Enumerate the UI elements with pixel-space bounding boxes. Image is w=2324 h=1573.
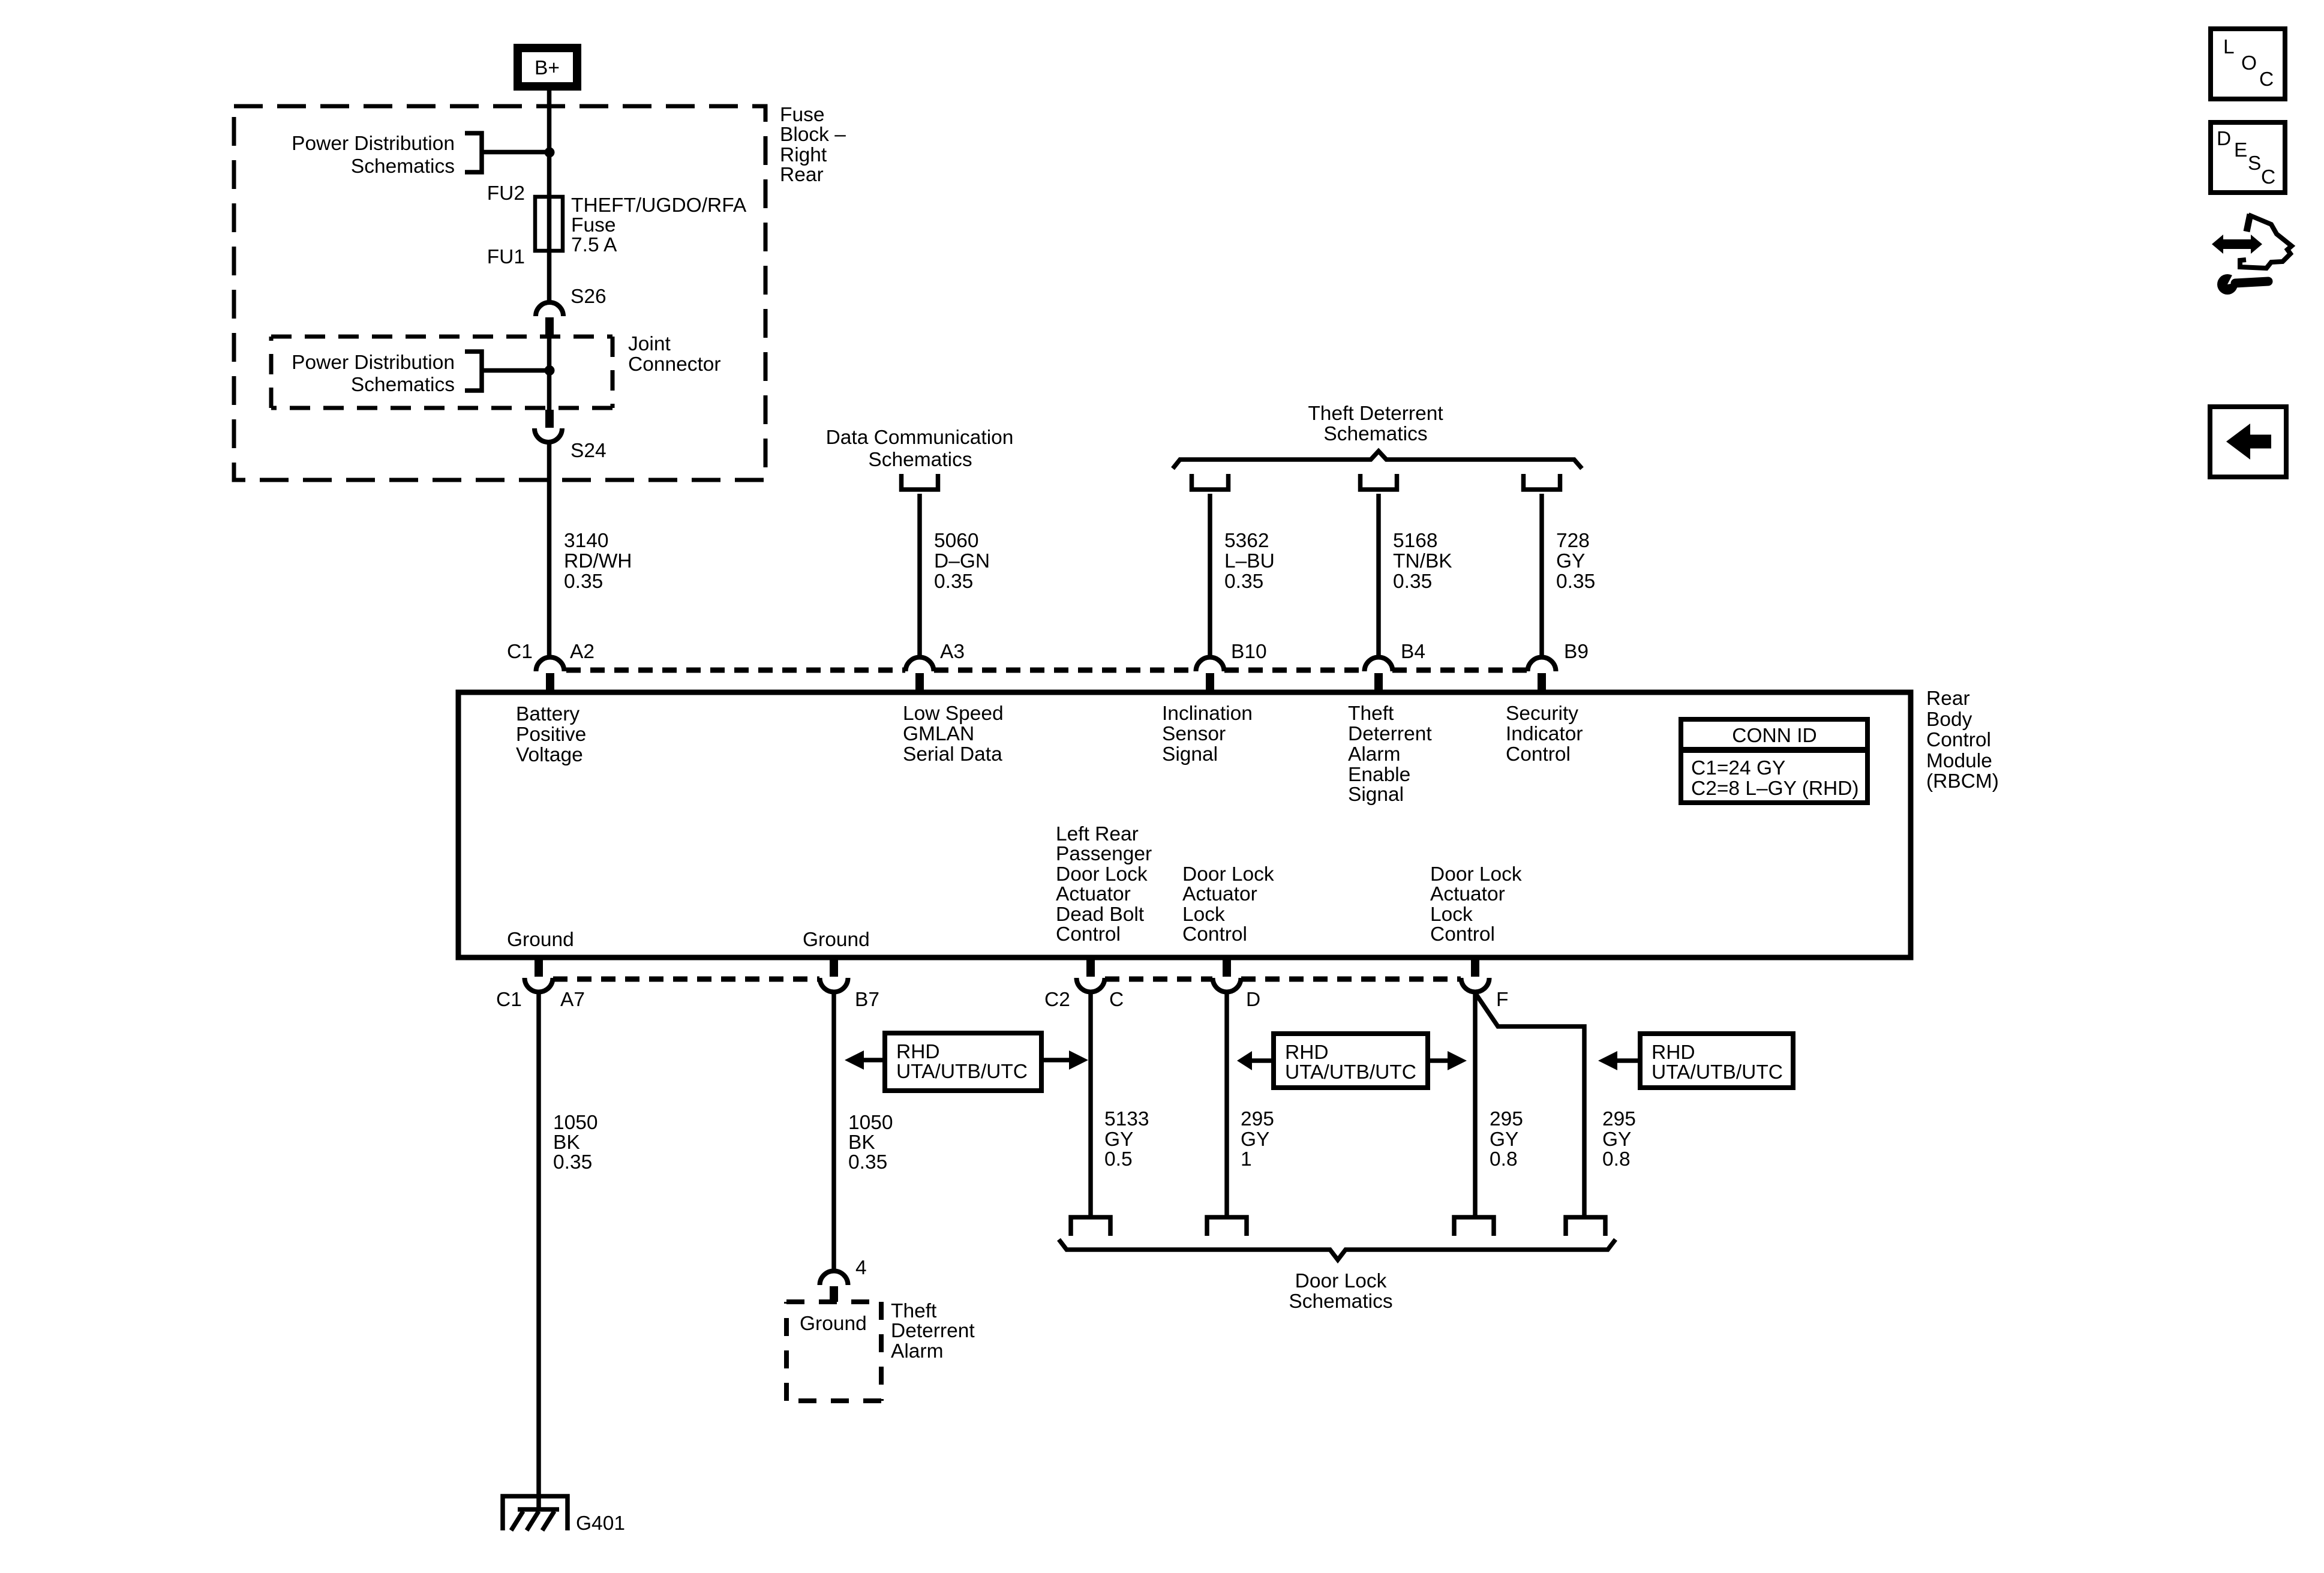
svg-text:A2: A2: [570, 641, 594, 663]
svg-text:L: L: [2223, 36, 2235, 58]
off-page connector B9: [1524, 474, 1560, 490]
svg-text:G401: G401: [576, 1512, 625, 1535]
node junction dot lower: [545, 365, 555, 376]
svg-text:1050: 1050: [553, 1112, 598, 1134]
svg-text:B7: B7: [855, 989, 879, 1011]
ground G401 symbol: [503, 1496, 568, 1530]
svg-text:S24: S24: [571, 440, 606, 462]
svg-text:Lock: Lock: [1182, 903, 1225, 926]
svg-text:Ground: Ground: [803, 929, 870, 951]
svg-text:Door Lock: Door Lock: [1056, 863, 1148, 885]
svg-text:BK: BK: [848, 1131, 875, 1154]
wire label 295 GY 0.8 (F2): [1602, 1108, 1636, 1170]
svg-text:3140: 3140: [564, 530, 609, 552]
svg-text:Sensor: Sensor: [1162, 723, 1226, 745]
svg-text:Body: Body: [1926, 709, 1972, 731]
svg-text:0.35: 0.35: [1556, 571, 1595, 593]
svg-text:Low Speed: Low Speed: [903, 703, 1004, 725]
svg-text:Schematics: Schematics: [868, 449, 972, 471]
svg-text:GMLAN: GMLAN: [903, 723, 974, 745]
module RBCM box: [458, 692, 1911, 957]
wire C to door lock: [1088, 992, 1093, 1217]
label Left Rear Passenger Door Lock Actuator Dead Bolt Control: [1056, 823, 1152, 945]
off-page connector F2 bottom: [1566, 1217, 1605, 1236]
label Joint Connector: [628, 333, 721, 376]
svg-text:Schematics: Schematics: [1323, 423, 1427, 445]
pin B4 arc: [1365, 658, 1393, 672]
svg-text:O: O: [2241, 52, 2257, 74]
svg-text:Deterrent: Deterrent: [891, 1320, 975, 1342]
svg-text:0.35: 0.35: [564, 571, 603, 593]
svg-text:295: 295: [1602, 1108, 1636, 1130]
svg-text:GY: GY: [1602, 1128, 1631, 1151]
svg-text:Voltage: Voltage: [516, 744, 583, 766]
svg-text:0.5: 0.5: [1104, 1148, 1133, 1170]
pin A2 arc: [536, 658, 565, 672]
svg-text:C1: C1: [507, 641, 533, 663]
wire B9 to theft deterrent: [1539, 494, 1544, 657]
CONN ID table: [1681, 719, 1867, 803]
svg-text:GY: GY: [1556, 550, 1585, 572]
joint connector dashed box: [271, 337, 612, 408]
svg-text:0.35: 0.35: [1224, 571, 1263, 593]
svg-text:A7: A7: [560, 989, 585, 1011]
svg-text:E: E: [2234, 139, 2247, 161]
svg-text:Power Distribution: Power Distribution: [292, 133, 455, 155]
label Theft Deterrent Schematics: [1308, 403, 1443, 445]
svg-text:D: D: [1246, 989, 1260, 1011]
label Security Indicator Control: [1506, 703, 1583, 766]
svg-text:Module: Module: [1926, 750, 1992, 772]
label Theft Deterrent Alarm: [891, 1300, 975, 1362]
svg-text:Theft: Theft: [891, 1300, 937, 1322]
pin D stub and arc: [1223, 959, 1231, 977]
svg-text:5362: 5362: [1224, 530, 1269, 552]
svg-text:Deterrent: Deterrent: [1348, 723, 1432, 745]
RHD UTA/UTB/UTC box 1: [845, 1033, 1088, 1091]
label Rear Body Control Module (RBCM): [1926, 688, 1999, 792]
svg-text:Block –: Block –: [780, 124, 846, 146]
off-page connector B10: [1192, 474, 1229, 490]
brace door lock schematics: [1059, 1239, 1616, 1260]
wire label 295 GY 1: [1241, 1108, 1274, 1170]
svg-text:728: 728: [1556, 530, 1590, 552]
svg-text:295: 295: [1490, 1108, 1523, 1130]
svg-text:UTA/UTB/UTC: UTA/UTB/UTC: [1285, 1061, 1416, 1083]
icon DESC box: [2211, 122, 2285, 193]
svg-text:CONN ID: CONN ID: [1732, 725, 1816, 747]
label Theft Deterrent Alarm Enable Signal: [1348, 703, 1432, 806]
svg-text:Data Communication: Data Communication: [826, 427, 1014, 449]
RHD UTA/UTB/UTC box 3: [1598, 1034, 1793, 1088]
label Power Distribution Schematics (upper): [292, 133, 455, 178]
fuse block dashed box: [234, 106, 765, 480]
fuse FU THEFT/UGDO/RFA: [535, 197, 563, 251]
label fuse value: [571, 194, 747, 256]
svg-text:Signal: Signal: [1162, 743, 1218, 766]
svg-text:L–BU: L–BU: [1224, 550, 1275, 572]
svg-text:F: F: [1496, 989, 1508, 1011]
battery positive B+ symbol: [514, 44, 581, 91]
svg-text:Security: Security: [1506, 703, 1578, 725]
svg-text:Theft Deterrent: Theft Deterrent: [1308, 403, 1443, 425]
wire B+ to splice S26: [547, 91, 552, 303]
svg-text:0.8: 0.8: [1602, 1148, 1631, 1170]
svg-text:Actuator: Actuator: [1430, 883, 1505, 905]
svg-text:Rear: Rear: [1926, 688, 1970, 710]
svg-text:D–GN: D–GN: [934, 550, 990, 572]
svg-text:S: S: [2248, 152, 2261, 175]
svg-text:4: 4: [855, 1257, 867, 1279]
wire bracket to node: [482, 368, 550, 373]
svg-text:Right: Right: [780, 144, 827, 166]
dashed connector line C1 top row: [566, 668, 905, 673]
pin B7 stub and arc: [830, 959, 838, 977]
svg-text:Control: Control: [1430, 923, 1495, 945]
svg-text:Connector: Connector: [628, 353, 721, 376]
svg-text:RHD: RHD: [896, 1041, 940, 1063]
wire label 295 GY 0.8 (F): [1490, 1108, 1523, 1170]
svg-text:Dead Bolt: Dead Bolt: [1056, 903, 1145, 926]
svg-text:B4: B4: [1401, 641, 1425, 663]
pin B9 arc: [1528, 658, 1556, 672]
svg-text:0.35: 0.35: [1393, 571, 1432, 593]
svg-text:0.35: 0.35: [848, 1151, 887, 1173]
wire S24 to module pin A2: [547, 442, 552, 658]
svg-text:Joint: Joint: [628, 333, 671, 355]
svg-text:Ground: Ground: [800, 1313, 867, 1335]
svg-text:UTA/UTB/UTC: UTA/UTB/UTC: [1652, 1061, 1783, 1083]
svg-text:Fuse: Fuse: [780, 104, 824, 126]
off-page connector B4: [1361, 474, 1397, 490]
svg-text:B10: B10: [1231, 641, 1267, 663]
splice arc above theft deterrent alarm: [820, 1271, 848, 1286]
wire label 1050 BK 0.35 (B7): [848, 1112, 893, 1173]
svg-text:Lock: Lock: [1430, 903, 1473, 926]
svg-text:B9: B9: [1564, 641, 1589, 663]
svg-text:Indicator: Indicator: [1506, 723, 1583, 745]
svg-text:1: 1: [1241, 1148, 1252, 1170]
svg-text:Power Distribution: Power Distribution: [292, 352, 455, 374]
svg-text:Door Lock: Door Lock: [1295, 1270, 1387, 1292]
svg-text:Left Rear: Left Rear: [1056, 823, 1139, 845]
off-page connector C bottom: [1071, 1217, 1110, 1236]
icon back arrow box: [2210, 407, 2286, 477]
svg-text:Control: Control: [1056, 923, 1121, 945]
svg-text:Ground: Ground: [507, 929, 574, 951]
svg-text:Schematics: Schematics: [351, 374, 455, 396]
pin A3 arc: [906, 658, 934, 672]
svg-text:Theft: Theft: [1348, 703, 1394, 725]
svg-text:D: D: [2217, 128, 2231, 150]
wire S26 to S24: [547, 335, 552, 414]
svg-text:Schematics: Schematics: [1289, 1290, 1392, 1313]
wire label 3140 RD/WH 0.35: [564, 530, 632, 593]
svg-text:Door Lock: Door Lock: [1430, 863, 1522, 885]
svg-text:Passenger: Passenger: [1056, 843, 1152, 865]
splice S26: [536, 302, 563, 316]
svg-text:B+: B+: [535, 57, 560, 79]
svg-text:5133: 5133: [1104, 1108, 1149, 1130]
svg-text:Fuse: Fuse: [571, 214, 615, 236]
svg-text:C1: C1: [496, 989, 522, 1011]
svg-text:BK: BK: [553, 1131, 580, 1154]
svg-text:7.5 A: 7.5 A: [571, 234, 617, 256]
label Power Distribution Schematics (lower): [292, 352, 455, 396]
wire B4 to theft deterrent: [1376, 494, 1381, 657]
wire D to door lock: [1224, 992, 1229, 1217]
wire label 1050 BK 0.35 (A7): [553, 1112, 598, 1173]
bracket lower power distribution: [465, 352, 482, 391]
svg-text:S26: S26: [571, 286, 606, 308]
pin A7 stub and arc: [535, 959, 543, 977]
wire label 5133 GY 0.5: [1104, 1108, 1149, 1170]
wire bracket to node: [482, 150, 550, 155]
node junction dot upper: [545, 148, 555, 158]
svg-text:5168: 5168: [1393, 530, 1438, 552]
svg-text:0.8: 0.8: [1490, 1148, 1518, 1170]
svg-text:Battery: Battery: [516, 703, 580, 725]
svg-text:Serial Data: Serial Data: [903, 743, 1002, 766]
wire B10 to theft deterrent: [1208, 494, 1212, 657]
theft deterrent alarm dashed box: [786, 1302, 881, 1401]
svg-text:Enable: Enable: [1348, 764, 1410, 786]
wire B7 to theft deterrent alarm ground: [831, 992, 836, 1271]
label Door Lock Actuator Lock Control (D): [1182, 863, 1274, 945]
wire A7 to G401: [536, 992, 541, 1509]
svg-text:TN/BK: TN/BK: [1393, 550, 1452, 572]
svg-text:RHD: RHD: [1285, 1041, 1329, 1064]
svg-text:FU1: FU1: [487, 246, 525, 268]
svg-text:C1=24 GY: C1=24 GY: [1691, 757, 1785, 779]
dashed connector line bottom C2: [1105, 977, 1212, 982]
label Inclination Sensor Signal: [1162, 703, 1253, 766]
svg-text:FU2: FU2: [487, 182, 525, 205]
svg-text:Schematics: Schematics: [351, 155, 455, 178]
svg-text:GY: GY: [1104, 1128, 1133, 1151]
svg-text:UTA/UTB/UTC: UTA/UTB/UTC: [896, 1061, 1028, 1083]
off-page connector D bottom: [1207, 1217, 1247, 1236]
dashed connector line bottom C1: [553, 977, 819, 982]
svg-text:5060: 5060: [934, 530, 979, 552]
wire label 5168 TN/BK 0.35: [1393, 530, 1452, 593]
wire label 728 GY 0.35: [1556, 530, 1595, 593]
wire F to door lock: [1473, 992, 1478, 1217]
pin F stub and arc: [1471, 959, 1479, 977]
svg-text:Rear: Rear: [780, 164, 824, 186]
svg-text:THEFT/UGDO/RFA: THEFT/UGDO/RFA: [571, 194, 747, 217]
svg-text:Signal: Signal: [1348, 784, 1404, 806]
svg-text:GY: GY: [1490, 1128, 1518, 1151]
wire label 5060 D-GN 0.35: [934, 530, 990, 593]
svg-text:295: 295: [1241, 1108, 1274, 1130]
svg-text:Control: Control: [1926, 729, 1991, 751]
icon LOC box: [2211, 29, 2285, 99]
wire label 5362 L-BU 0.35: [1224, 530, 1275, 593]
svg-text:Inclination: Inclination: [1162, 703, 1253, 725]
off-page connector F bottom: [1454, 1217, 1494, 1236]
svg-text:1050: 1050: [848, 1112, 893, 1134]
svg-text:Actuator: Actuator: [1182, 883, 1257, 905]
svg-text:C: C: [1109, 989, 1124, 1011]
pin B10 arc: [1196, 658, 1224, 672]
pin C stub and arc: [1086, 959, 1095, 977]
svg-text:C: C: [2259, 68, 2274, 91]
label Door Lock Actuator Lock Control (F): [1430, 863, 1522, 945]
label Door Lock Schematics: [1289, 1270, 1392, 1313]
label Data Communication Schematics: [826, 427, 1014, 471]
svg-text:Alarm: Alarm: [891, 1340, 943, 1362]
svg-text:Alarm: Alarm: [1348, 743, 1400, 766]
label Low Speed GMLAN Serial Data: [903, 703, 1004, 766]
label Battery Positive Voltage: [516, 703, 586, 766]
svg-text:A3: A3: [940, 641, 965, 663]
bracket upper power distribution: [465, 133, 482, 172]
svg-text:RD/WH: RD/WH: [564, 550, 632, 572]
svg-text:RHD: RHD: [1652, 1041, 1695, 1064]
svg-text:0.35: 0.35: [553, 1151, 592, 1173]
wire F branch to second door lock: [1475, 993, 1584, 1217]
svg-text:0.35: 0.35: [934, 571, 973, 593]
svg-text:C2: C2: [1044, 989, 1070, 1011]
icon vehicle diagnostic arrow: [2212, 214, 2292, 295]
svg-text:GY: GY: [1241, 1128, 1269, 1151]
svg-text:Actuator: Actuator: [1056, 883, 1131, 905]
svg-text:(RBCM): (RBCM): [1926, 770, 1999, 792]
svg-text:C: C: [2261, 166, 2275, 188]
wire A3 to data communication: [917, 494, 922, 657]
label Fuse Block Right Rear: [780, 104, 846, 186]
svg-text:Control: Control: [1182, 923, 1247, 945]
RHD UTA/UTB/UTC box 2: [1237, 1034, 1467, 1088]
svg-text:Positive: Positive: [516, 724, 586, 746]
splice S24: [545, 410, 554, 428]
brace theft deterrent: [1173, 451, 1582, 469]
svg-text:Control: Control: [1506, 743, 1571, 766]
svg-text:Door Lock: Door Lock: [1182, 863, 1274, 885]
off-page connector A3: [902, 474, 938, 490]
svg-text:C2=8 L–GY (RHD): C2=8 L–GY (RHD): [1691, 778, 1859, 800]
